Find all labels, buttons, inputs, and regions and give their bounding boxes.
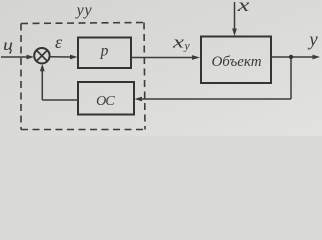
wire output y [271, 56, 313, 58]
svg-text:ОС: ОС [96, 94, 115, 109]
svg-text:ε: ε [55, 32, 63, 52]
wire summer to P [50, 56, 71, 58]
svg-text:у: у [307, 30, 318, 51]
block ОС (feedback) [78, 82, 134, 115]
wire feedback to OC [140, 98, 291, 100]
junction dot [289, 55, 293, 59]
wire input to summer [1, 56, 28, 58]
wire P to Object [131, 57, 193, 59]
svg-text:уу: уу [75, 2, 93, 19]
wire feedback down from junction [290, 57, 292, 99]
svg-text:x: x [172, 32, 185, 51]
block Объект [201, 37, 271, 84]
svg-text:Объект: Объект [211, 54, 261, 70]
dashed boundary box УУ [21, 23, 145, 130]
wire OC to summer [42, 99, 78, 101]
svg-text:ц: ц [3, 36, 13, 54]
summing junction [34, 48, 49, 63]
svg-text:x: x [237, 0, 250, 15]
svg-text:р: р [100, 42, 109, 59]
svg-text:у: у [183, 41, 190, 53]
wire x disturbance input [234, 2, 236, 30]
block P (regulator) [78, 38, 131, 69]
